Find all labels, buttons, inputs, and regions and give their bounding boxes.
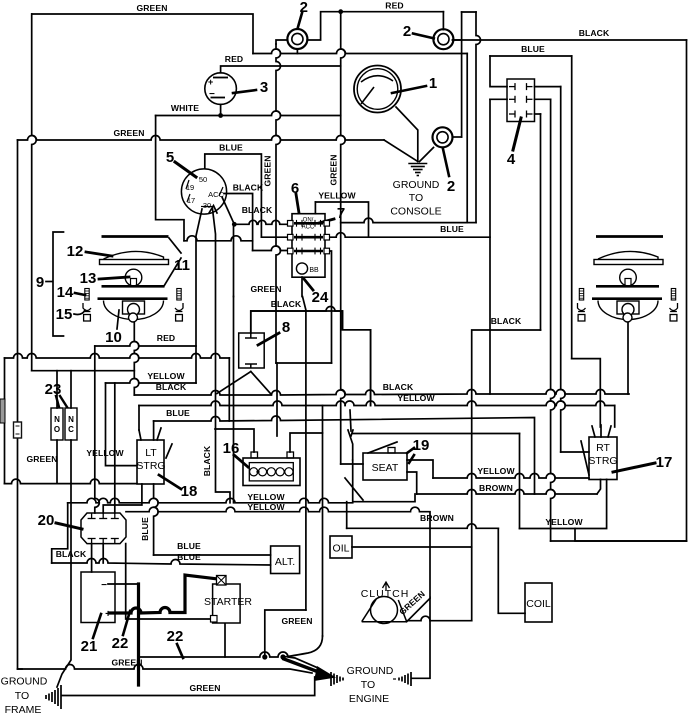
svg-text:TO: TO bbox=[15, 690, 29, 702]
svg-text:16: 16 bbox=[223, 440, 240, 457]
svg-text:30: 30 bbox=[203, 201, 211, 210]
svg-text:1: 1 bbox=[429, 75, 437, 92]
svg-text:YELLOW: YELLOW bbox=[86, 448, 124, 458]
svg-text:−: − bbox=[209, 89, 215, 100]
svg-text:8: 8 bbox=[282, 319, 290, 336]
svg-text:BB: BB bbox=[309, 267, 319, 274]
svg-text:17: 17 bbox=[656, 454, 673, 471]
svg-text:4: 4 bbox=[507, 151, 516, 168]
svg-text:2: 2 bbox=[300, 0, 308, 16]
svg-text:ON/: ON/ bbox=[303, 218, 314, 224]
svg-text:+: + bbox=[105, 609, 111, 620]
svg-text:50: 50 bbox=[199, 175, 207, 184]
svg-text:ACC: ACC bbox=[302, 225, 315, 231]
svg-text:N: N bbox=[54, 415, 60, 424]
svg-text:13: 13 bbox=[80, 270, 97, 287]
svg-text:7: 7 bbox=[337, 205, 345, 222]
svg-text:BLUE: BLUE bbox=[440, 224, 464, 234]
svg-text:11: 11 bbox=[174, 257, 190, 274]
svg-text:6: 6 bbox=[291, 180, 299, 197]
svg-text:RED: RED bbox=[157, 333, 175, 343]
svg-text:23: 23 bbox=[45, 381, 62, 398]
svg-text:YELLOW: YELLOW bbox=[318, 191, 356, 201]
svg-text:LT: LT bbox=[145, 447, 157, 459]
svg-text:RED: RED bbox=[385, 1, 403, 11]
svg-text:FRAME: FRAME bbox=[5, 704, 42, 716]
svg-text:YELLOW: YELLOW bbox=[545, 517, 583, 527]
svg-text:YELLOW: YELLOW bbox=[247, 492, 285, 502]
svg-text:C: C bbox=[68, 425, 74, 434]
svg-text:BROWN: BROWN bbox=[479, 483, 513, 493]
svg-text:OIL: OIL bbox=[333, 543, 350, 555]
svg-text:GREEN: GREEN bbox=[26, 454, 57, 464]
svg-text:STRG: STRG bbox=[588, 455, 617, 467]
svg-text:SEAT: SEAT bbox=[372, 462, 399, 474]
svg-text:20: 20 bbox=[38, 512, 55, 529]
svg-text:17: 17 bbox=[187, 196, 195, 205]
svg-text:GREEN: GREEN bbox=[113, 128, 144, 138]
svg-text:24: 24 bbox=[312, 289, 329, 306]
svg-text:21: 21 bbox=[81, 638, 98, 655]
svg-text:TO: TO bbox=[361, 679, 375, 691]
svg-text:2: 2 bbox=[403, 23, 411, 40]
svg-text:BLACK: BLACK bbox=[579, 28, 610, 38]
svg-text:YELLOW: YELLOW bbox=[397, 393, 435, 403]
svg-text:10: 10 bbox=[105, 329, 122, 346]
svg-text:BLUE: BLUE bbox=[140, 517, 150, 541]
svg-text:+: + bbox=[208, 77, 213, 87]
svg-text:9: 9 bbox=[36, 274, 44, 291]
svg-text:22: 22 bbox=[112, 635, 129, 652]
svg-text:BLACK: BLACK bbox=[233, 183, 264, 193]
svg-text:GROUND: GROUND bbox=[347, 665, 394, 677]
svg-text:BLACK: BLACK bbox=[383, 382, 414, 392]
svg-text:2: 2 bbox=[447, 178, 455, 195]
svg-text:COIL: COIL bbox=[526, 598, 551, 610]
svg-text:YELLOW: YELLOW bbox=[477, 466, 515, 476]
svg-text:CLUTCH: CLUTCH bbox=[361, 588, 410, 600]
svg-text:BLUE: BLUE bbox=[219, 143, 243, 153]
svg-text:YELLOW: YELLOW bbox=[247, 502, 285, 512]
svg-text:ACC: ACC bbox=[208, 190, 224, 199]
svg-text:BLUE: BLUE bbox=[177, 552, 201, 562]
svg-text:ENGINE: ENGINE bbox=[349, 693, 389, 705]
svg-text:GREEN: GREEN bbox=[281, 616, 312, 626]
svg-text:TO: TO bbox=[409, 192, 423, 204]
svg-text:BLUE: BLUE bbox=[166, 408, 190, 418]
svg-text:−: − bbox=[101, 580, 107, 591]
svg-text:15: 15 bbox=[56, 306, 73, 323]
svg-text:WHITE: WHITE bbox=[171, 103, 199, 113]
svg-text:CONSOLE: CONSOLE bbox=[390, 206, 441, 218]
svg-text:GREEN: GREEN bbox=[136, 3, 167, 13]
svg-text:5: 5 bbox=[166, 149, 174, 166]
svg-text:GROUND: GROUND bbox=[1, 676, 48, 688]
svg-text:BLACK: BLACK bbox=[242, 205, 273, 215]
svg-text:GREEN: GREEN bbox=[250, 284, 281, 294]
svg-text:14: 14 bbox=[57, 284, 74, 301]
svg-text:N: N bbox=[68, 415, 74, 424]
svg-text:BLACK: BLACK bbox=[56, 549, 87, 559]
svg-text:19: 19 bbox=[186, 183, 194, 192]
svg-text:STRG: STRG bbox=[136, 460, 165, 472]
svg-text:19: 19 bbox=[413, 437, 430, 454]
svg-text:GREEN: GREEN bbox=[263, 155, 273, 186]
svg-text:BLUE: BLUE bbox=[521, 44, 545, 54]
svg-text:18: 18 bbox=[181, 483, 198, 500]
svg-text:ALT.: ALT. bbox=[275, 556, 295, 568]
svg-text:BLUE: BLUE bbox=[177, 541, 201, 551]
svg-text:O: O bbox=[54, 425, 60, 434]
svg-text:BLACK: BLACK bbox=[271, 299, 302, 309]
svg-text:BLACK: BLACK bbox=[156, 382, 187, 392]
svg-text:RT: RT bbox=[596, 442, 610, 454]
svg-text:22: 22 bbox=[167, 628, 184, 645]
svg-text:RED: RED bbox=[225, 54, 243, 64]
svg-text:GROUND: GROUND bbox=[393, 179, 440, 191]
svg-text:3: 3 bbox=[260, 79, 268, 96]
svg-text:GREEN: GREEN bbox=[329, 154, 339, 185]
svg-text:BLACK: BLACK bbox=[202, 445, 212, 476]
svg-text:GREEN: GREEN bbox=[111, 658, 142, 668]
svg-text:12: 12 bbox=[67, 243, 84, 260]
svg-text:BROWN: BROWN bbox=[420, 513, 454, 523]
svg-text:STARTER: STARTER bbox=[204, 596, 252, 608]
svg-text:YELLOW: YELLOW bbox=[147, 371, 185, 381]
svg-text:GREEN: GREEN bbox=[189, 683, 220, 693]
svg-text:BLACK: BLACK bbox=[491, 316, 522, 326]
